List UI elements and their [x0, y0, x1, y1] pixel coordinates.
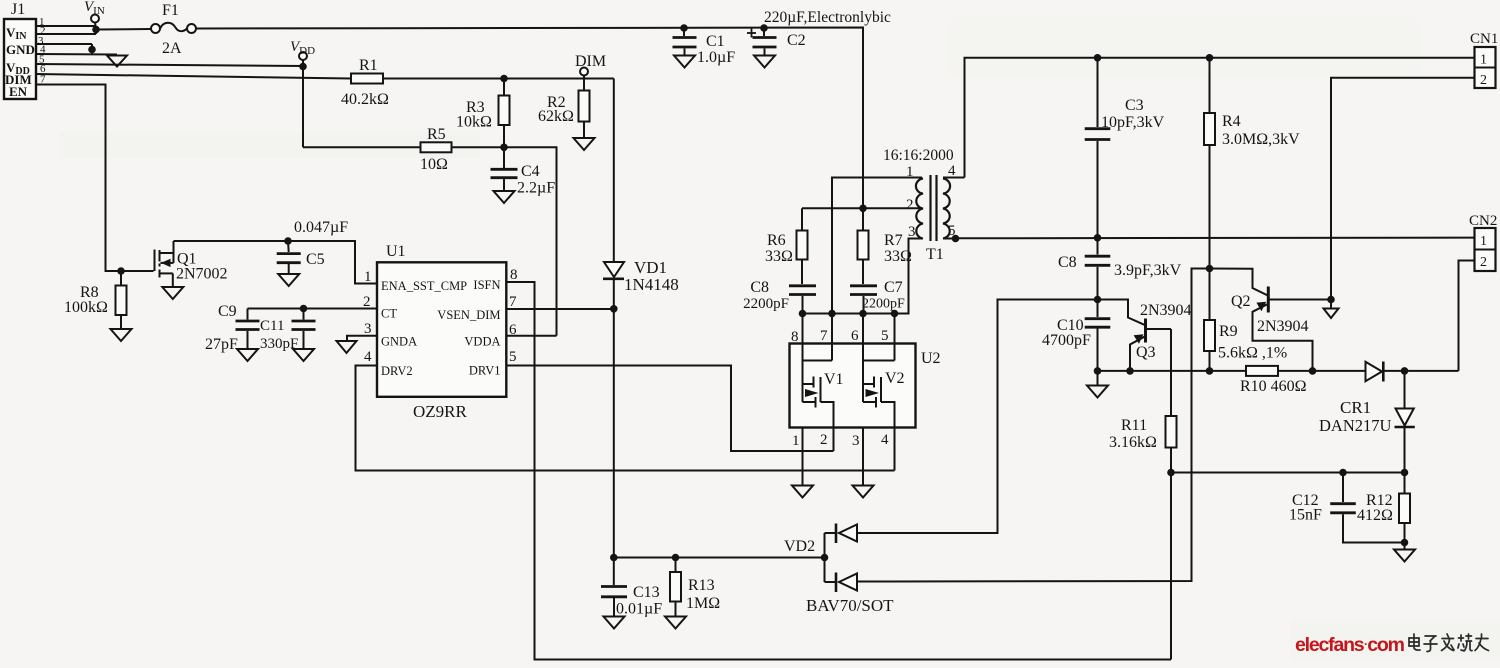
svg-text:1.0µF: 1.0µF	[697, 49, 735, 66]
label C2 value	[764, 9, 891, 26]
svg-text:62kΩ: 62kΩ	[538, 108, 574, 125]
wire DIM to VD1 vertical	[613, 79, 615, 262]
svg-text:R13: R13	[688, 577, 715, 594]
ground at J1	[107, 56, 127, 67]
wire C13 node to VD2 common	[614, 557, 825, 559]
ground below C13	[604, 617, 625, 629]
wire U2 pin1 to ground	[802, 428, 804, 486]
junction row pin7	[828, 310, 836, 318]
connector CN2	[1469, 213, 1497, 271]
junction VDD	[299, 63, 307, 71]
junction R11 bottom	[1167, 469, 1175, 477]
ground below R13	[665, 617, 686, 629]
capacitor C10	[1042, 300, 1110, 371]
svg-text:5: 5	[509, 349, 517, 365]
resistor R8	[64, 271, 127, 329]
wire sense node horizontal	[1171, 472, 1405, 474]
svg-text:2200pF: 2200pF	[743, 296, 789, 312]
svg-text:VSEN_DIM: VSEN_DIM	[437, 308, 500, 322]
capacitor C8 primary	[743, 279, 816, 314]
svg-text:C3: C3	[1125, 97, 1144, 114]
svg-text:R6: R6	[767, 232, 786, 249]
junction R13	[672, 554, 680, 562]
capacitor C12	[1289, 473, 1405, 543]
svg-text:27pF: 27pF	[205, 336, 238, 353]
junction C11	[300, 305, 308, 313]
transistor Q2 2N3904	[1210, 269, 1332, 371]
svg-text:C13: C13	[633, 584, 660, 601]
resistor R4	[1204, 58, 1300, 269]
svg-text:elecfans·com: elecfans·com	[1295, 634, 1405, 656]
wire C10 to ground	[1097, 371, 1099, 385]
svg-text:5: 5	[881, 328, 889, 344]
wire VD1 node down to C13 node	[613, 309, 615, 558]
junction R9 bottom	[1206, 367, 1214, 375]
J1 pin numbers 1-7	[38, 16, 46, 86]
U2 top pin numbers	[791, 328, 889, 345]
svg-text:T1: T1	[926, 246, 944, 263]
MOSFET module U2	[790, 344, 941, 428]
svg-text:0.01µF: 0.01µF	[616, 601, 662, 618]
wire J1 pin6 DIM through R1	[36, 74, 614, 79]
diode VD2 BAV70	[784, 524, 894, 616]
wire VD2 top diode to Q3 collector node	[857, 300, 1098, 534]
junction T1 pin5	[952, 235, 960, 243]
wire VSEN_DIM to VD1 node	[506, 308, 614, 310]
junction R3 top	[500, 75, 508, 83]
svg-text:2A: 2A	[162, 40, 182, 57]
wire gate row above U2	[803, 313, 909, 315]
svg-text:R7: R7	[884, 232, 903, 249]
svg-text:ISFN: ISFN	[473, 278, 500, 292]
svg-text:VD2: VD2	[784, 538, 815, 555]
logo elecfans.com	[1295, 634, 1405, 656]
svg-text:3: 3	[908, 224, 916, 240]
svg-text:DAN217U: DAN217U	[1319, 416, 1391, 435]
wire T1 pin3 to U2 pin5	[895, 239, 923, 314]
wire U2 pin4 to DRV2	[894, 428, 896, 471]
svg-text:Q3: Q3	[1136, 344, 1156, 361]
capacitor C9	[205, 303, 260, 353]
ground below R8	[111, 329, 132, 341]
svg-text:2: 2	[1480, 73, 1487, 88]
junction R12 bottom	[1401, 539, 1409, 547]
junction C3 top	[1094, 54, 1102, 62]
svg-text:2N3904: 2N3904	[1140, 302, 1192, 319]
transistor Q1 2N7002	[155, 241, 228, 287]
junction C12 top	[1339, 469, 1347, 477]
resistor R5	[420, 126, 452, 173]
wire DRV1 to U2 pin2	[506, 366, 833, 452]
junction Q2 emitter rail	[1309, 367, 1317, 375]
wire Q1 drain to C5 and U1 pin1	[174, 241, 378, 284]
svg-text:2: 2	[820, 432, 828, 448]
junction T1 pin2 net	[859, 205, 867, 213]
svg-text:2: 2	[906, 197, 914, 213]
junction at C1	[680, 24, 688, 32]
svg-text:3.16kΩ: 3.16kΩ	[1109, 434, 1157, 451]
terminal DIM	[580, 68, 588, 79]
label DIM	[575, 53, 606, 70]
svg-text:10pF,3kV: 10pF,3kV	[1101, 114, 1165, 131]
terminal VDD	[299, 52, 307, 66]
ground below C9	[237, 349, 258, 361]
svg-text:CT: CT	[381, 307, 397, 321]
capacitor C11	[260, 309, 316, 353]
svg-text:VDDA: VDDA	[464, 335, 500, 349]
svg-text:4: 4	[364, 349, 372, 365]
wire J1 pin7 EN	[36, 85, 154, 272]
wire R5 net	[303, 147, 557, 335]
junction VD1 VSEN	[610, 305, 618, 313]
svg-text:10Ω: 10Ω	[420, 156, 448, 173]
svg-text:40.2kΩ: 40.2kΩ	[341, 91, 389, 108]
resistor R6	[765, 208, 808, 284]
resistor R7	[858, 208, 913, 284]
svg-text:R10 460Ω: R10 460Ω	[1240, 378, 1307, 395]
wire CR1 up to CN2 pin2	[1459, 261, 1475, 371]
ground below U2 pin3	[853, 486, 874, 498]
svg-text:U2: U2	[921, 350, 941, 367]
wire F1 to C1 C2 and transformer feed	[196, 28, 863, 209]
svg-text:EN: EN	[9, 84, 28, 99]
current sense rail	[1098, 370, 1366, 372]
resistor R1	[341, 57, 389, 108]
junction CR1b top	[1401, 367, 1409, 375]
resistor R12	[1357, 473, 1410, 550]
op-amp controller U1 OZ9RR	[377, 243, 506, 421]
terminal VIN	[91, 15, 99, 28]
wire CT net to C9 C11	[248, 308, 378, 310]
svg-text:412Ω: 412Ω	[1357, 507, 1393, 524]
svg-text:C7: C7	[884, 279, 903, 296]
U1 pin numbers	[363, 267, 518, 365]
svg-text:4: 4	[881, 432, 889, 448]
diode CR1 vertical	[1395, 371, 1415, 473]
svg-text:C5: C5	[306, 251, 325, 268]
junction C10 bottom rail	[1094, 367, 1102, 375]
diode VD1 1N4148	[603, 258, 679, 309]
label CR1	[1319, 398, 1391, 435]
svg-text:C8: C8	[1058, 254, 1077, 271]
svg-text:CN2: CN2	[1469, 213, 1497, 229]
ground below C4	[494, 191, 515, 203]
svg-text:GND: GND	[6, 42, 35, 57]
wire row to U2 pin5	[894, 314, 896, 344]
svg-text:3: 3	[852, 433, 860, 449]
svg-text:GNDA: GNDA	[381, 335, 417, 349]
svg-text:R11: R11	[1121, 417, 1147, 434]
svg-text:CR1: CR1	[1340, 398, 1371, 417]
ground below C11	[293, 349, 314, 361]
junction Q3 emitter rail	[1126, 367, 1134, 375]
junction C8 HV top	[1094, 234, 1102, 242]
wire J1 pin1/pin2 to VIN node	[36, 26, 96, 34]
wire DRV2 to U2 pin4	[356, 366, 895, 471]
junction Q3 collector node	[1094, 296, 1102, 304]
svg-text:2.2µF: 2.2µF	[517, 180, 555, 197]
svg-text:8: 8	[791, 329, 799, 345]
wire GNDA	[347, 336, 377, 341]
junction at C2	[760, 24, 768, 32]
junction R4 top	[1206, 54, 1214, 62]
svg-text:1: 1	[364, 269, 372, 285]
svg-text:OZ9RR: OZ9RR	[413, 402, 468, 421]
fuse F1	[151, 2, 196, 57]
svg-text:V2: V2	[885, 370, 905, 387]
svg-text:1: 1	[1480, 53, 1487, 68]
svg-text:C11: C11	[260, 318, 284, 334]
svg-text:220µF,Electronlybic: 220µF,Electronlybic	[764, 9, 891, 26]
junction R8	[117, 267, 125, 275]
wire U2 pin2 to DRV1	[833, 428, 835, 452]
U2 bottom pin numbers	[792, 432, 889, 449]
svg-text:5.6kΩ ,1%: 5.6kΩ ,1%	[1218, 345, 1287, 362]
svg-text:R4: R4	[1222, 113, 1241, 130]
capacitor C7	[850, 279, 905, 314]
svg-text:3.0MΩ,3kV: 3.0MΩ,3kV	[1222, 131, 1300, 148]
ground at Q2 base	[1324, 309, 1339, 319]
svg-text:C1: C1	[706, 33, 725, 50]
connector CN1	[1470, 31, 1498, 88]
junction VIN	[92, 26, 100, 34]
svg-text:2200pF: 2200pF	[862, 297, 905, 312]
svg-text:R5: R5	[427, 126, 446, 143]
diode CR1 horizontal	[1366, 362, 1459, 382]
svg-text:ENA_SST_CMP: ENA_SST_CMP	[381, 279, 467, 293]
logo chinese characters	[1409, 634, 1489, 652]
svg-text:1N4148: 1N4148	[624, 275, 679, 294]
svg-text:DIM: DIM	[575, 53, 606, 70]
wire row to U2 pin6	[862, 314, 864, 344]
label T1 ratio	[883, 147, 954, 164]
junction row pin5	[891, 310, 899, 318]
resistor R2	[538, 79, 590, 138]
MOSFET V2	[863, 344, 905, 428]
resistor R3	[456, 79, 510, 148]
svg-text:DRV2: DRV2	[381, 364, 413, 378]
wire VDDA to R5 node	[506, 335, 556, 337]
svg-text:3: 3	[364, 321, 372, 337]
wire Q2 base to ground	[1330, 300, 1332, 309]
svg-text:15nF: 15nF	[1289, 507, 1322, 524]
svg-text:J1: J1	[11, 1, 25, 18]
junction R12 top	[1401, 469, 1409, 477]
svg-text:CN1: CN1	[1470, 31, 1498, 47]
svg-text:100kΩ: 100kΩ	[64, 299, 108, 316]
capacitor C2 polarized	[747, 28, 806, 68]
junction C13	[610, 554, 618, 562]
ground below Q1	[162, 287, 183, 299]
junction row pin6	[859, 310, 867, 318]
wire Q2 base up to CN1 pin2	[1331, 78, 1475, 300]
label C5 value	[294, 219, 348, 236]
svg-text:1: 1	[906, 164, 914, 180]
svg-text:V1: V1	[824, 371, 844, 388]
svg-text:3.9pF,3kV: 3.9pF,3kV	[1114, 262, 1182, 279]
svg-text:16:16:2000: 16:16:2000	[883, 147, 954, 164]
svg-text:2: 2	[1480, 255, 1487, 270]
svg-text:BAV70/SOT: BAV70/SOT	[806, 596, 894, 615]
wire U2 pin3 to ground	[862, 428, 864, 486]
svg-text:C9: C9	[218, 303, 237, 320]
wire VIN to fuse F1	[96, 28, 151, 31]
T1 pin numbers	[906, 163, 956, 240]
wire J1 pin5 VDD	[36, 64, 303, 66]
resistor R9	[1204, 269, 1287, 371]
wire T1 pin1 to U2 pin7 vertical	[832, 178, 922, 344]
resistor R10	[1240, 366, 1307, 395]
junction C5	[284, 237, 292, 245]
junction Q2 base	[1327, 296, 1335, 304]
wire T1 pin5 to CN2 pin1	[956, 237, 1475, 240]
ground GNDA	[337, 341, 357, 353]
capacitor C3	[1085, 58, 1165, 238]
svg-text:33Ω: 33Ω	[765, 248, 793, 265]
junction VD2 common	[821, 554, 829, 562]
label VDD	[290, 39, 315, 57]
svg-text:7: 7	[820, 328, 828, 344]
svg-text:10kΩ: 10kΩ	[456, 114, 492, 131]
ground below C5	[278, 274, 299, 286]
svg-text:C4: C4	[521, 163, 540, 180]
svg-text:4: 4	[948, 163, 956, 179]
svg-text:8: 8	[510, 267, 518, 283]
capacitor C13	[601, 558, 662, 618]
svg-text:7: 7	[509, 294, 517, 310]
junction row pin8	[799, 310, 807, 318]
svg-text:1MΩ: 1MΩ	[686, 595, 720, 612]
svg-text:R1: R1	[359, 57, 378, 74]
svg-text:R9: R9	[1219, 323, 1238, 340]
ground below R2	[574, 138, 595, 150]
capacitor C5	[277, 241, 325, 274]
svg-text:Q2: Q2	[1231, 293, 1251, 310]
svg-text:C8: C8	[750, 279, 769, 296]
capacitor C8 HV	[1058, 238, 1182, 300]
ground below R12	[1394, 550, 1415, 562]
wire T1 pin4 up to CN1 rail	[965, 58, 1475, 178]
wire VD2 bottom diode to R4 R9 node	[857, 269, 1210, 582]
transistor Q3 2N3904	[1098, 300, 1192, 371]
svg-text:U1: U1	[386, 243, 406, 260]
ground below C10	[1087, 386, 1108, 398]
svg-text:4700pF: 4700pF	[1042, 332, 1091, 349]
ground below U2 pin1	[792, 486, 813, 498]
wire R6 top to T1 pin2	[802, 207, 922, 209]
junction C4 node	[500, 144, 508, 152]
label VIN	[84, 0, 105, 17]
connector J1	[4, 1, 36, 99]
wire ISFN down and along bottom	[506, 282, 1171, 660]
resistor R11	[1109, 416, 1177, 660]
capacitor C4	[491, 147, 556, 196]
svg-text:1: 1	[792, 433, 800, 449]
svg-text:C2: C2	[787, 32, 806, 49]
junction R4 R9 node	[1206, 265, 1214, 273]
wire row to U2 pin8	[802, 314, 804, 344]
resistor R13	[670, 558, 720, 617]
svg-text:2N3904: 2N3904	[1257, 318, 1309, 335]
capacitor C1	[673, 28, 736, 68]
wire Q3 base down through R11	[1170, 329, 1172, 416]
svg-text:DRV1: DRV1	[469, 364, 501, 378]
svg-text:0.047µF: 0.047µF	[294, 219, 348, 236]
svg-text:2N7002: 2N7002	[176, 266, 228, 283]
junction GND pins	[88, 46, 96, 54]
svg-text:1: 1	[1480, 234, 1487, 249]
svg-text:F1: F1	[162, 2, 179, 19]
MOSFET V1	[803, 344, 844, 428]
svg-text:6: 6	[851, 328, 859, 344]
transformer T1	[916, 175, 965, 263]
wire J1 pin3/pin4 GND	[36, 44, 117, 55]
wire VDD down to R5	[302, 67, 304, 148]
